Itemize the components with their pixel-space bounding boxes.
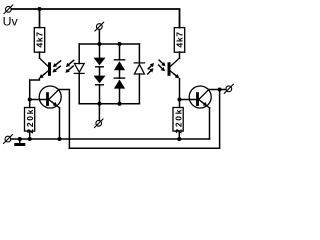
wire right branch bottom — [138, 74, 140, 104]
light arrows out of D5 — [65, 60, 73, 73]
resistor R2 — [25, 108, 35, 132]
terminal AC input (top middle) — [95, 22, 104, 31]
diode D1 (down) — [94, 58, 106, 67]
junction bottom rail / D4 — [117, 102, 121, 106]
junction Q1 emitter / ground rail — [57, 137, 61, 141]
wire bridge bottom to AC return terminal — [98, 104, 100, 121]
wire top rail — [11, 9, 179, 28]
wire D3 top — [119, 44, 121, 60]
diode D3 (up) — [114, 60, 125, 70]
wire R4 to ground rail — [178, 131, 180, 139]
svg-text:4k7: 4k7 — [174, 31, 184, 47]
transistor Q1 (left NPN) — [39, 86, 61, 108]
wire left branch top — [78, 44, 80, 64]
junction bottom rail / D2 — [97, 102, 101, 106]
wire R1 to T1 collector — [39, 52, 41, 58]
wire Q2 collector to output — [209, 89, 226, 91]
wire R2 to ground rail — [29, 131, 31, 139]
ground — [14, 139, 25, 146]
junction top rail / D1 — [97, 42, 101, 46]
bridge top rail — [79, 43, 139, 45]
wire node B to R2 — [29, 100, 31, 108]
wire D3 to D4 — [119, 70, 121, 78]
light arrows out of D6 — [148, 63, 154, 74]
wire left branch bottom — [78, 73, 80, 103]
phototransistor T1 (left) — [39, 58, 51, 78]
wire D2 bottom — [99, 85, 101, 104]
wire D1 top — [99, 44, 101, 58]
junction R4 / ground rail — [177, 137, 181, 141]
phototransistor T2 (right) — [168, 58, 180, 78]
diode D4 (up) — [114, 78, 125, 89]
terminal Uv (supply input, top left) — [4, 5, 13, 14]
svg-text:Uv: Uv — [3, 15, 19, 29]
bridge bottom rail — [79, 103, 139, 105]
LED D6 (right emitter diode) — [134, 63, 144, 74]
terminal output (right) — [224, 84, 233, 93]
wire lower rail (common collectors) — [69, 90, 219, 149]
wire node B to Q1 base — [30, 99, 46, 101]
wire Q1 collector to lower rail — [59, 90, 70, 149]
resistor R1 — [34, 28, 44, 53]
light arrows into T1 — [52, 61, 60, 73]
junction top rail / D3 — [117, 42, 121, 46]
light arrows into T2 — [159, 60, 166, 71]
wire terminal to bridge top rail — [98, 30, 100, 45]
wire D1 to D2 — [99, 67, 101, 76]
wire Q2 emitter to ground rail — [209, 108, 211, 139]
wire R3 to T2 collector — [179, 52, 181, 58]
wire D4 bottom — [119, 89, 121, 104]
svg-text:220k: 220k — [25, 108, 35, 134]
wire Q1 emitter to ground rail — [59, 108, 61, 139]
ground rail — [11, 138, 210, 140]
wire T2 emitter to node C — [179, 79, 181, 108]
wire node C to Q2 base — [180, 99, 197, 101]
wire node A to R1 — [39, 9, 41, 28]
node A junction top rail / R1 — [37, 7, 41, 11]
terminal 0V (bottom left) — [4, 135, 13, 144]
resistor R3 — [174, 28, 184, 53]
terminal AC return (bottom middle) — [94, 119, 103, 128]
junction output / lower rail — [218, 87, 222, 91]
diode D2 (down) — [94, 76, 106, 85]
junction R2 / ground rail — [28, 137, 32, 141]
svg-text:220k: 220k — [174, 108, 184, 134]
wire right branch top — [138, 44, 140, 63]
node C junction T2/R4/Q2 base — [177, 97, 181, 101]
wire T1 emitter to node B — [30, 79, 40, 100]
svg-text:4k7: 4k7 — [34, 31, 44, 47]
junction ground tap — [18, 137, 22, 141]
transistor Q2 (right NPN) — [189, 86, 211, 108]
node B junction T1/R2/Q1 base — [28, 97, 32, 101]
LED D5 (left emitter diode) — [74, 64, 84, 74]
resistor R4 — [173, 108, 183, 132]
